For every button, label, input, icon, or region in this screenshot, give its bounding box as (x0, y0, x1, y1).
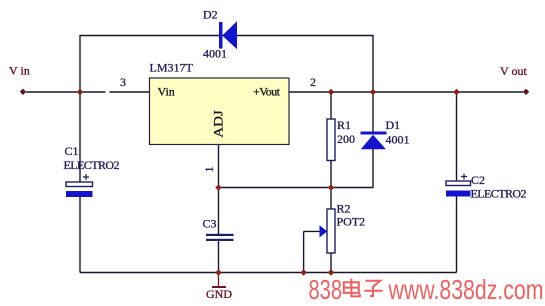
svg-text:2: 2 (310, 75, 316, 89)
svg-text:D2: D2 (203, 8, 218, 22)
resistor R1 (327, 118, 355, 161)
capacitor C1 (64, 144, 120, 197)
junction R2 bottom (328, 269, 334, 275)
wire D2 right vertical (372, 35, 374, 92)
svg-text:Vin: Vin (158, 85, 175, 99)
svg-text:V out: V out (500, 64, 527, 78)
svg-text:POT2: POT2 (337, 215, 366, 229)
wire left input vertical (79, 35, 81, 92)
wire ADJ horizontal (219, 187, 374, 189)
node V in terminal (20, 89, 26, 95)
svg-text:D1: D1 (386, 118, 401, 132)
wire bottom rail (80, 272, 457, 274)
junction D1 top (370, 89, 376, 95)
svg-text:R2: R2 (337, 202, 351, 216)
svg-text:1: 1 (202, 167, 216, 173)
svg-text:C1: C1 (65, 144, 79, 158)
svg-text:www.838dz.com: www.838dz.com (388, 274, 544, 305)
potentiometer R2 (327, 202, 365, 254)
diode D2 (203, 8, 237, 61)
wire R1 top lead (330, 92, 332, 119)
wire C2 bottom lead (456, 197, 458, 273)
op-amp U1 LM317T body (150, 78, 290, 145)
junction wiper bottom (300, 269, 306, 275)
capacitor C3 (203, 217, 234, 242)
junction R2 top (328, 184, 334, 190)
junction GND node (215, 269, 221, 275)
svg-text:C3: C3 (203, 217, 217, 231)
wire output horizontal (289, 91, 523, 93)
svg-text:838: 838 (309, 274, 343, 305)
svg-text:R1: R1 (337, 118, 351, 132)
wire input horizontal (26, 91, 106, 93)
wire R2 top lead (330, 188, 332, 210)
svg-text:LM317T: LM317T (150, 61, 194, 75)
wire R1 bottom lead (330, 161, 332, 188)
svg-text:GND: GND (206, 287, 232, 301)
svg-text:+Vout: +Vout (253, 85, 281, 99)
svg-text:V in: V in (9, 64, 30, 78)
junction input node (77, 89, 83, 95)
junction ADJ node (215, 184, 221, 190)
wire C1 top lead (79, 92, 81, 182)
wire C3 bottom lead (218, 241, 220, 273)
wire R2 wiper arrow (304, 225, 328, 272)
junction C2 top (453, 89, 459, 95)
watermark 838dz (309, 274, 544, 305)
wire D1 bottom lead (372, 149, 374, 188)
wire top rail left segment (80, 35, 219, 37)
svg-text:3: 3 (120, 75, 126, 89)
svg-text:ELECTRO2: ELECTRO2 (471, 187, 527, 201)
wire C2 top lead (456, 92, 458, 181)
svg-text:4001: 4001 (203, 47, 227, 61)
node V out terminal (523, 89, 529, 95)
svg-text:200: 200 (337, 132, 355, 146)
svg-text:ADJ: ADJ (212, 110, 226, 138)
wire R2 bottom lead (330, 253, 332, 273)
svg-text:ELECTRO2: ELECTRO2 (64, 158, 120, 172)
wire D1 top lead (372, 92, 374, 132)
svg-text:4001: 4001 (386, 133, 410, 147)
wire top rail right segment (237, 35, 374, 37)
capacitor C2 (446, 173, 527, 201)
junction R1 top (328, 89, 334, 95)
wire pin1 vertical (218, 145, 220, 235)
wire C1 bottom lead (79, 197, 81, 273)
diode D1 (361, 118, 410, 149)
svg-text:C2: C2 (471, 173, 485, 187)
ground symbol (206, 273, 232, 302)
